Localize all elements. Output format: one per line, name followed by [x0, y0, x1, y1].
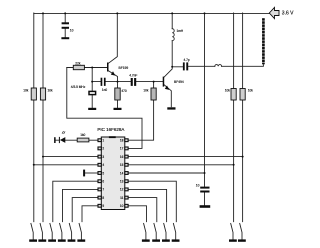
svg-text:470: 470 — [121, 89, 127, 93]
svg-text:6: 6 — [102, 180, 104, 184]
svg-text:5: 5 — [102, 171, 104, 175]
svg-text:13: 13 — [120, 180, 124, 184]
svg-text:10k: 10k — [225, 89, 231, 93]
svg-text:17: 17 — [120, 147, 124, 151]
svg-text:1: 1 — [102, 139, 104, 143]
svg-text:BF199: BF199 — [119, 66, 129, 70]
svg-text:4/3.5 MHz: 4/3.5 MHz — [71, 85, 86, 89]
svg-text:3: 3 — [102, 155, 104, 159]
svg-text:11: 11 — [120, 196, 124, 200]
svg-text:10: 10 — [196, 183, 200, 187]
svg-text:PIC 16F628A: PIC 16F628A — [97, 127, 124, 132]
svg-text:16: 16 — [120, 155, 124, 159]
svg-text:9: 9 — [102, 204, 104, 208]
svg-text:2: 2 — [102, 147, 104, 151]
svg-text:4.7nF: 4.7nF — [129, 73, 137, 77]
svg-text:7: 7 — [102, 188, 104, 192]
svg-text:4: 4 — [102, 163, 104, 167]
svg-text:12: 12 — [120, 188, 124, 192]
svg-text:10k: 10k — [143, 88, 149, 92]
svg-text:10k: 10k — [248, 89, 254, 93]
svg-text:10: 10 — [120, 204, 124, 208]
svg-text:3.6 V: 3.6 V — [282, 11, 294, 17]
svg-text:22k: 22k — [75, 61, 81, 65]
svg-text:10k: 10k — [48, 88, 54, 92]
svg-text:10: 10 — [70, 29, 74, 33]
svg-text:1k0: 1k0 — [80, 133, 85, 137]
svg-text:10k: 10k — [23, 88, 29, 92]
svg-text:15: 15 — [120, 163, 124, 167]
svg-text:BF494: BF494 — [174, 80, 184, 84]
svg-text:1n0: 1n0 — [102, 88, 108, 92]
svg-text:18: 18 — [120, 139, 124, 143]
svg-text:1mH: 1mH — [177, 29, 184, 33]
svg-text:14: 14 — [120, 171, 124, 175]
svg-text:4.7p: 4.7p — [184, 58, 190, 62]
svg-text:8: 8 — [102, 196, 104, 200]
